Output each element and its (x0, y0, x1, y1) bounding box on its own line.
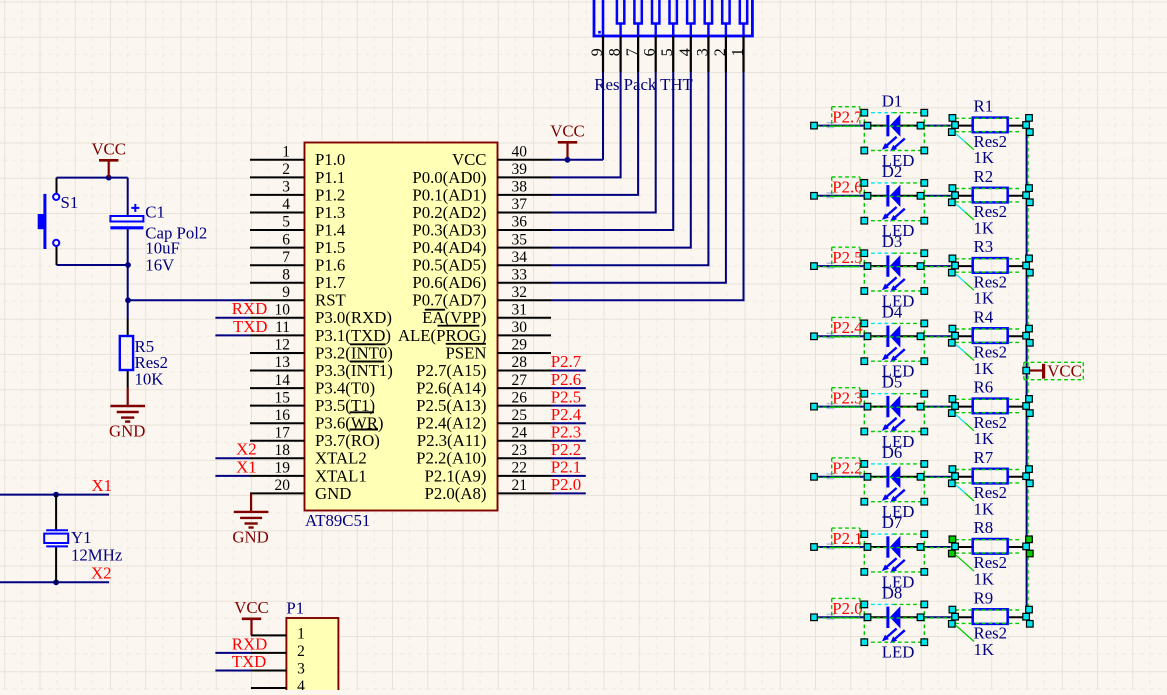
svg-text:TXD: TXD (233, 317, 268, 336)
svg-text:P1.5: P1.5 (315, 238, 345, 257)
svg-text:16V: 16V (145, 256, 174, 275)
wire P2.3 net to LED D5 (814, 406, 868, 408)
svg-text:P0.4(AD4): P0.4(AD4) (412, 238, 486, 257)
wire LED D7 to resistor R8 (920, 546, 955, 548)
svg-text:P2.4: P2.4 (551, 405, 582, 424)
svg-text:35: 35 (512, 231, 528, 248)
U1 pin 31 (EA(VPP)) (422, 302, 551, 328)
ERC marker P2.2 (827, 474, 835, 479)
junction X2 (53, 579, 59, 585)
resistor R5 Res2 10K (120, 319, 168, 389)
svg-text:P1.6: P1.6 (315, 256, 345, 275)
svg-text:R1: R1 (974, 97, 994, 116)
svg-text:P3.1(TXD): P3.1(TXD) (315, 326, 391, 345)
wire pin20 to ground (250, 492, 252, 494)
svg-text:37: 37 (512, 196, 528, 213)
U1 pin 14 (P3.4(T0)) (250, 372, 375, 398)
resistor R4 Res2 1K (955, 307, 1027, 378)
svg-text:P2.6(A14): P2.6(A14) (416, 379, 486, 398)
wire P2.7 net to LED D1 (814, 125, 868, 127)
wire RXD stub (215, 317, 250, 319)
svg-text:P1.3: P1.3 (315, 203, 345, 222)
svg-text:1: 1 (730, 48, 747, 56)
svg-text:1K: 1K (974, 359, 995, 378)
selection marks row D1 (811, 107, 1033, 154)
capacitor C1 Cap Pol2 (110, 203, 207, 275)
svg-text:27: 27 (512, 372, 528, 389)
svg-text:8: 8 (607, 48, 624, 56)
wire S1 bottom to C1 bottom (57, 264, 129, 266)
ground GND (U1 pin 20) (232, 493, 268, 546)
RP1 pin 4 (677, 36, 694, 72)
svg-text:12: 12 (275, 337, 291, 354)
svg-text:P2.3(A11): P2.3(A11) (417, 431, 487, 450)
svg-text:P2.3: P2.3 (551, 423, 581, 442)
U1 pin 9 (RST) (250, 284, 346, 310)
svg-text:7: 7 (624, 48, 641, 56)
wire P2.6 net to LED D2 (814, 195, 868, 197)
wire P2.1 stub (551, 475, 586, 477)
wire X1 net (0, 494, 109, 496)
wire P2.4 stub (551, 422, 586, 424)
U1 pin 30 (ALE(PROG)) (398, 319, 551, 345)
svg-text:P2.1(A9): P2.1(A9) (425, 466, 487, 485)
svg-text:1: 1 (282, 144, 290, 161)
U1 pin 1 (P1.0) (250, 144, 345, 170)
svg-text:4: 4 (297, 678, 305, 690)
svg-text:P2.4(A12): P2.4(A12) (416, 414, 486, 433)
junction VCC/C1 top (106, 175, 112, 181)
U1 pin 2 (P1.1) (250, 161, 345, 187)
svg-text:TXD: TXD (232, 652, 266, 671)
svg-text:19: 19 (275, 460, 291, 477)
U1 pin 28 (P2.7(A15)) (416, 354, 551, 380)
U1 pin 40 (VCC) (452, 144, 551, 170)
svg-text:1K: 1K (974, 640, 995, 659)
svg-text:28: 28 (512, 354, 528, 371)
U1 pin 17 (P3.7(RO)) (250, 425, 380, 451)
P1 pin 2 (251, 643, 305, 660)
U1 pin 3 (P1.2) (250, 179, 345, 205)
svg-text:1K: 1K (974, 289, 995, 308)
wire LED D5 to resistor R6 (920, 406, 955, 408)
svg-text:P2.1: P2.1 (551, 458, 581, 477)
U1 pin 12 (P3.2(INT0)) (250, 337, 393, 363)
ERC marker P2.7 (827, 123, 835, 128)
svg-text:P1.2: P1.2 (315, 185, 345, 204)
svg-text:RXD: RXD (232, 635, 267, 654)
wire RP1 pin 8 to U1 (551, 72, 621, 177)
U1 pin 16 (P3.6(WR)) (250, 407, 384, 433)
svg-text:P0.1(AD1): P0.1(AD1) (412, 185, 486, 204)
svg-text:VCC: VCC (550, 122, 585, 141)
resistor R6 Res2 1K (955, 378, 1027, 449)
VCC stem (108, 160, 110, 177)
wire RP1 pin 1 to U1 (551, 72, 744, 300)
svg-text:P3.3(INT1): P3.3(INT1) (315, 361, 393, 380)
wire RP1 pin 5 to U1 (551, 72, 673, 230)
svg-text:P2.2(A10): P2.2(A10) (416, 449, 486, 468)
svg-text:22: 22 (512, 460, 528, 477)
LED D6 (868, 443, 920, 521)
svg-text:2: 2 (712, 48, 729, 56)
LED D5 (868, 373, 920, 451)
svg-text:Y1: Y1 (71, 528, 92, 547)
resistor R1 Res2 1K (955, 97, 1027, 168)
U1 pin 25 (P2.4(A12)) (416, 407, 551, 433)
junction RST node (125, 297, 131, 303)
svg-text:P2.2: P2.2 (832, 459, 862, 478)
svg-text:39: 39 (512, 161, 528, 178)
svg-text:6: 6 (642, 48, 659, 56)
wire P2.0 stub (551, 492, 586, 494)
svg-text:20: 20 (275, 477, 291, 494)
U1 pin-name overbars/underbars (350, 310, 486, 430)
svg-text:EA(VPP): EA(VPP) (422, 308, 486, 327)
svg-text:P0.0(AD0): P0.0(AD0) (412, 168, 486, 187)
svg-text:3: 3 (282, 179, 290, 196)
RP1 pin 2 (712, 36, 729, 72)
power port VCC (reset circuit) (91, 140, 126, 161)
op-amp/IC U1 AT89C51 body (305, 143, 498, 511)
svg-text:23: 23 (512, 442, 528, 459)
wire P2.7 stub (551, 370, 586, 372)
selection marks row D8 (811, 598, 1033, 645)
svg-text:9: 9 (282, 284, 290, 301)
RP1 pin 5 (659, 36, 676, 72)
wire P2.0 net to LED D8 (814, 616, 868, 618)
svg-text:32: 32 (512, 284, 528, 301)
svg-text:P1: P1 (286, 599, 304, 618)
svg-text:40: 40 (512, 144, 528, 161)
svg-text:P2.5: P2.5 (551, 387, 581, 406)
svg-text:P1.0: P1.0 (315, 150, 345, 169)
U1 pin 39 (P0.0(AD0)) (412, 161, 551, 187)
power port VCC (U1 pin 40) (550, 122, 585, 143)
svg-text:13: 13 (275, 354, 291, 371)
LED D4 (868, 302, 920, 380)
svg-text:P2.5: P2.5 (832, 248, 862, 267)
P1 pin 4 (251, 678, 305, 695)
svg-text:3: 3 (297, 661, 305, 678)
U1 pin 11 (P3.1(TXD)) (250, 319, 391, 345)
svg-text:P0.6(AD6): P0.6(AD6) (412, 273, 486, 292)
wire X2 net (0, 581, 109, 583)
U1 pin 8 (P1.7) (250, 266, 345, 292)
crystal Y1 12MHz (44, 495, 122, 583)
svg-text:17: 17 (275, 425, 291, 442)
svg-text:C1: C1 (145, 203, 165, 222)
svg-text:P3.4(T0): P3.4(T0) (315, 379, 375, 398)
svg-text:VCC: VCC (1047, 361, 1082, 380)
junction X1 (53, 492, 59, 498)
svg-text:P2.7: P2.7 (832, 107, 862, 126)
svg-text:R8: R8 (974, 518, 994, 537)
svg-text:12MHz: 12MHz (71, 545, 122, 564)
ERC marker P2.3 (827, 404, 835, 409)
ERC marker P2.4 (827, 333, 835, 338)
U1 pin 10 (P3.0(RXD)) (250, 302, 392, 328)
wire RP1 pin 9 to U1 (602, 72, 604, 160)
svg-text:6: 6 (282, 231, 290, 248)
svg-text:P2.0(A8): P2.0(A8) (425, 484, 487, 503)
wire RP1 pin 6 to U1 (551, 72, 656, 213)
svg-text:5: 5 (659, 48, 676, 56)
svg-text:R7: R7 (974, 448, 994, 467)
U1 pin 4 (P1.3) (250, 196, 345, 222)
resistor R7 Res2 1K (955, 448, 1027, 519)
svg-text:18: 18 (275, 442, 291, 459)
svg-text:10: 10 (275, 302, 291, 319)
RP1 pin 8 (607, 36, 624, 72)
resistor pack RP1 Res Pack THT (594, 0, 752, 94)
svg-text:X1: X1 (236, 457, 257, 476)
VCC stem P1 (250, 619, 252, 636)
ERC marker P2.0 (827, 614, 835, 619)
svg-text:P1.7: P1.7 (315, 273, 345, 292)
resistor R3 Res2 1K (955, 237, 1027, 308)
ERC marker P2.6 (827, 193, 835, 198)
svg-text:4: 4 (677, 48, 694, 56)
svg-text:4: 4 (282, 196, 290, 213)
selection marks row D5 (811, 388, 1033, 435)
connector P1 body (286, 618, 338, 695)
svg-text:P2.0: P2.0 (551, 475, 581, 494)
svg-text:GND: GND (315, 484, 351, 503)
svg-text:P0.2(AD2): P0.2(AD2) (412, 203, 486, 222)
svg-text:36: 36 (512, 214, 528, 231)
svg-text:P1.4: P1.4 (315, 220, 346, 239)
U1 pin 36 (P0.3(AD3)) (412, 214, 551, 240)
power port VCC (P1) (234, 598, 269, 619)
wire LED D3 to resistor R3 (920, 265, 955, 267)
svg-text:P2.7(A15): P2.7(A15) (416, 361, 486, 380)
selection marks row D4 (811, 317, 1033, 364)
U1 pin 26 (P2.5(A13)) (416, 389, 551, 415)
wire P2.5 net to LED D3 (814, 265, 868, 267)
svg-text:RXD: RXD (232, 299, 267, 318)
bus wire VCC net (LED anode rail) (1026, 126, 1028, 618)
wire P2.2 net to LED D6 (814, 476, 868, 478)
svg-text:VCC: VCC (91, 140, 126, 159)
svg-text:P2.3: P2.3 (832, 388, 862, 407)
svg-text:1K: 1K (974, 570, 995, 589)
svg-text:X2: X2 (236, 440, 257, 459)
svg-text:10K: 10K (135, 370, 164, 389)
selection marks row D7 (811, 528, 1033, 575)
svg-text:14: 14 (275, 372, 291, 389)
U1 pin 38 (P0.1(AD1)) (412, 179, 551, 205)
U1 pin 22 (P2.1(A9)) (425, 460, 552, 486)
wire LED D1 to resistor R1 (920, 125, 955, 127)
wire RP1 pin 2 to U1 (551, 72, 726, 283)
RP1 pin 7 (624, 36, 641, 72)
U1 pin 5 (P1.4) (250, 214, 346, 240)
wire TXD stub (215, 334, 250, 336)
svg-text:RST: RST (315, 291, 346, 310)
RP1 pin 1 (730, 36, 747, 72)
svg-text:3: 3 (694, 48, 711, 56)
svg-text:25: 25 (512, 407, 528, 424)
RP1 pin 6 (642, 36, 659, 72)
svg-text:2: 2 (297, 643, 305, 660)
svg-text:2: 2 (282, 161, 290, 178)
LED D8 (868, 583, 920, 661)
LED D7 (868, 513, 920, 591)
svg-text:D8: D8 (882, 583, 903, 602)
RP1 pin 9 (589, 36, 606, 72)
svg-text:16: 16 (275, 407, 291, 424)
svg-text:Res Pack THT: Res Pack THT (594, 75, 693, 94)
wire X1 stub (215, 475, 250, 477)
LED D1 (868, 92, 920, 170)
svg-text:P0.5(AD5): P0.5(AD5) (412, 256, 486, 275)
wire C1 branch vertical (127, 178, 129, 216)
wire LED D6 to resistor R7 (920, 476, 955, 478)
svg-text:D1: D1 (882, 92, 903, 111)
U1 pin 7 (P1.6) (250, 249, 345, 275)
svg-text:29: 29 (512, 337, 528, 354)
svg-text:P2.4: P2.4 (832, 318, 863, 337)
svg-text:GND: GND (232, 527, 268, 546)
svg-text:X1: X1 (92, 476, 113, 495)
svg-text:XTAL2: XTAL2 (315, 449, 367, 468)
U1 pin 13 (P3.3(INT1)) (250, 354, 393, 380)
resistor R9 Res2 1K (955, 588, 1027, 659)
P1 pin 3 (251, 661, 305, 678)
svg-text:P2.6: P2.6 (832, 178, 862, 197)
wire TXD stub (P1) (215, 670, 251, 672)
wire P2.6 stub (551, 387, 586, 389)
svg-text:1K: 1K (974, 148, 995, 167)
wire pin40 to res pack (551, 159, 603, 161)
wire P2.1 net to LED D7 (814, 546, 868, 548)
svg-text:26: 26 (512, 389, 528, 406)
svg-text:R3: R3 (974, 237, 994, 256)
U1 pin 19 (XTAL1) (250, 460, 367, 486)
svg-text:P0.3(AD3): P0.3(AD3) (412, 220, 486, 239)
wire LED D4 to resistor R4 (920, 335, 955, 337)
svg-text:1K: 1K (974, 218, 995, 237)
U1 pin 23 (P2.2(A10)) (416, 442, 551, 468)
wire LED D2 to resistor R2 (920, 195, 955, 197)
svg-text:D7: D7 (882, 513, 903, 532)
svg-text:P3.2(INT0): P3.2(INT0) (315, 343, 393, 362)
junction C1 bottom (125, 262, 131, 268)
svg-text:P3.7(RO): P3.7(RO) (315, 431, 380, 450)
selection marks row D2 (811, 177, 1033, 224)
svg-text:GND: GND (109, 422, 145, 441)
U1 pin 34 (P0.5(AD5)) (412, 249, 551, 275)
svg-text:5: 5 (282, 214, 290, 231)
U1 pin 37 (P0.2(AD2)) (412, 196, 551, 222)
svg-text:AT89C51: AT89C51 (305, 511, 370, 530)
U1 pin 6 (P1.5) (250, 231, 345, 257)
svg-text:D5: D5 (882, 373, 903, 392)
wire P2.3 stub (551, 440, 586, 442)
U1 pin 35 (P0.4(AD4)) (412, 231, 551, 257)
svg-text:VCC: VCC (234, 598, 269, 617)
svg-text:R9: R9 (974, 588, 994, 607)
U1 pin 21 (P2.0(A8)) (425, 477, 552, 503)
wire P2.5 stub (551, 405, 586, 407)
svg-text:24: 24 (512, 425, 528, 442)
switch S1 (38, 178, 79, 265)
wire X2 stub (215, 457, 250, 459)
svg-text:31: 31 (512, 302, 528, 319)
svg-text:34: 34 (512, 249, 528, 266)
wire RP1 pin 3 to U1 (551, 72, 708, 265)
svg-text:1K: 1K (974, 429, 995, 448)
svg-text:38: 38 (512, 179, 528, 196)
ground GND (R5) (109, 388, 145, 441)
svg-text:9: 9 (589, 48, 606, 56)
wire RXD stub (P1) (215, 652, 251, 654)
wire RP1 pin 4 to U1 (551, 72, 691, 248)
P1 pin 1 (251, 625, 305, 642)
LED D2 (868, 162, 920, 240)
U1 pin 18 (XTAL2) (250, 442, 367, 468)
svg-text:11: 11 (275, 319, 290, 336)
svg-text:P2.5(A13): P2.5(A13) (416, 396, 486, 415)
U1 pin 33 (P0.6(AD6)) (412, 266, 551, 292)
svg-text:D6: D6 (882, 443, 903, 462)
svg-text:33: 33 (512, 266, 528, 283)
svg-text:D3: D3 (882, 232, 903, 251)
svg-text:15: 15 (275, 389, 291, 406)
svg-text:R4: R4 (974, 307, 994, 326)
svg-text:21: 21 (512, 477, 528, 494)
svg-text:LED: LED (882, 643, 915, 662)
selection marks row D3 (811, 247, 1033, 294)
svg-text:XTAL1: XTAL1 (315, 466, 367, 485)
svg-text:ALE(PROG): ALE(PROG) (398, 326, 487, 345)
U1 pin 32 (P0.7(AD7)) (412, 284, 551, 310)
wire RP1 pin 7 to U1 (551, 72, 638, 195)
wire P2.4 net to LED D4 (814, 335, 868, 337)
svg-text:7: 7 (282, 249, 290, 266)
svg-text:P2.6: P2.6 (551, 370, 581, 389)
selection marks row D6 (811, 458, 1033, 505)
svg-text:S1: S1 (61, 193, 79, 212)
U1 pin 24 (P2.3(A11)) (417, 425, 551, 451)
svg-text:P1.1: P1.1 (315, 168, 345, 187)
resistor R8 Res2 1K (955, 518, 1027, 589)
svg-text:P2.1: P2.1 (832, 529, 862, 548)
wire P2.2 stub (551, 457, 586, 459)
svg-text:1: 1 (297, 625, 305, 642)
ERC marker P2.5 (827, 263, 835, 268)
svg-text:R2: R2 (974, 167, 994, 186)
svg-text:PSEN: PSEN (445, 343, 486, 362)
power port VCC (LED bus) (1023, 361, 1083, 380)
svg-text:P2.0: P2.0 (832, 599, 862, 618)
svg-text:1K: 1K (974, 499, 995, 518)
U1 pin 29 (PSEN) (445, 337, 551, 363)
wire LED D8 to resistor R9 (920, 616, 955, 618)
U1 pin 20 (GND) (250, 477, 351, 503)
svg-text:P0.7(AD7): P0.7(AD7) (412, 291, 486, 310)
svg-text:X2: X2 (91, 563, 112, 582)
RP1 pin 3 (694, 36, 711, 72)
svg-text:P2.2: P2.2 (551, 440, 581, 459)
svg-text:D4: D4 (882, 302, 903, 321)
svg-text:30: 30 (512, 319, 528, 336)
resistor R2 Res2 1K (955, 167, 1027, 238)
svg-text:R6: R6 (974, 378, 994, 397)
ERC marker P2.1 (827, 544, 835, 549)
junction VCC pin40 (565, 157, 571, 163)
